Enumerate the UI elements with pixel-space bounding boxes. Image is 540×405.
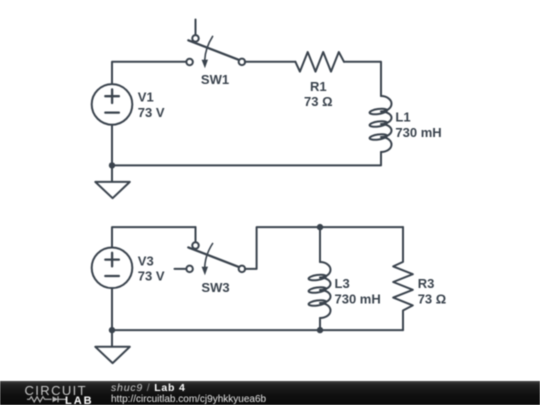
svg-text:V3: V3	[138, 253, 154, 268]
wire	[112, 62, 186, 84]
svg-text:73 Ω: 73 Ω	[418, 291, 447, 306]
svg-text:L3: L3	[335, 276, 350, 291]
junction	[109, 327, 115, 333]
wire	[245, 227, 403, 269]
svg-text:73 V: 73 V	[138, 105, 165, 120]
svg-text:R1: R1	[310, 79, 327, 94]
CircuitLab logo	[25, 383, 94, 405]
switch SW1	[186, 20, 245, 69]
ground	[95, 330, 130, 363]
wire	[245, 61, 296, 63]
svg-text:V1: V1	[138, 90, 154, 105]
svg-text:73 Ω: 73 Ω	[304, 94, 333, 109]
resistor R1	[295, 52, 344, 72]
inductor L1	[369, 96, 391, 152]
junction	[109, 162, 115, 168]
wire	[111, 125, 113, 166]
footer bar	[0, 381, 540, 405]
svg-text:730 mH: 730 mH	[335, 291, 381, 306]
inductor L3	[308, 262, 330, 318]
wire	[112, 227, 196, 247]
voltage source V1	[92, 84, 133, 125]
wire	[111, 288, 113, 330]
svg-text:SW3: SW3	[201, 280, 229, 295]
junction	[317, 224, 323, 230]
svg-text:730 mH: 730 mH	[395, 125, 441, 140]
svg-text:R3: R3	[418, 276, 435, 291]
svg-text:http://circuitlab.com/cj9yhkky: http://circuitlab.com/cj9yhkkyuea6b	[111, 394, 267, 405]
svg-text:73 V: 73 V	[138, 269, 165, 284]
resistor R3	[393, 227, 413, 330]
wire	[112, 152, 381, 165]
switch SW3	[175, 227, 246, 275]
svg-text:SW1: SW1	[201, 72, 229, 87]
wire	[319, 227, 321, 262]
wire	[344, 62, 381, 96]
voltage source V3	[92, 247, 133, 288]
wire	[112, 329, 403, 331]
ground	[95, 165, 130, 198]
wire	[319, 318, 321, 330]
svg-text:LAB: LAB	[65, 395, 94, 405]
svg-text:L1: L1	[395, 110, 410, 125]
svg-text:shuc9 / Lab 4: shuc9 / Lab 4	[111, 382, 186, 394]
junction	[317, 327, 323, 333]
